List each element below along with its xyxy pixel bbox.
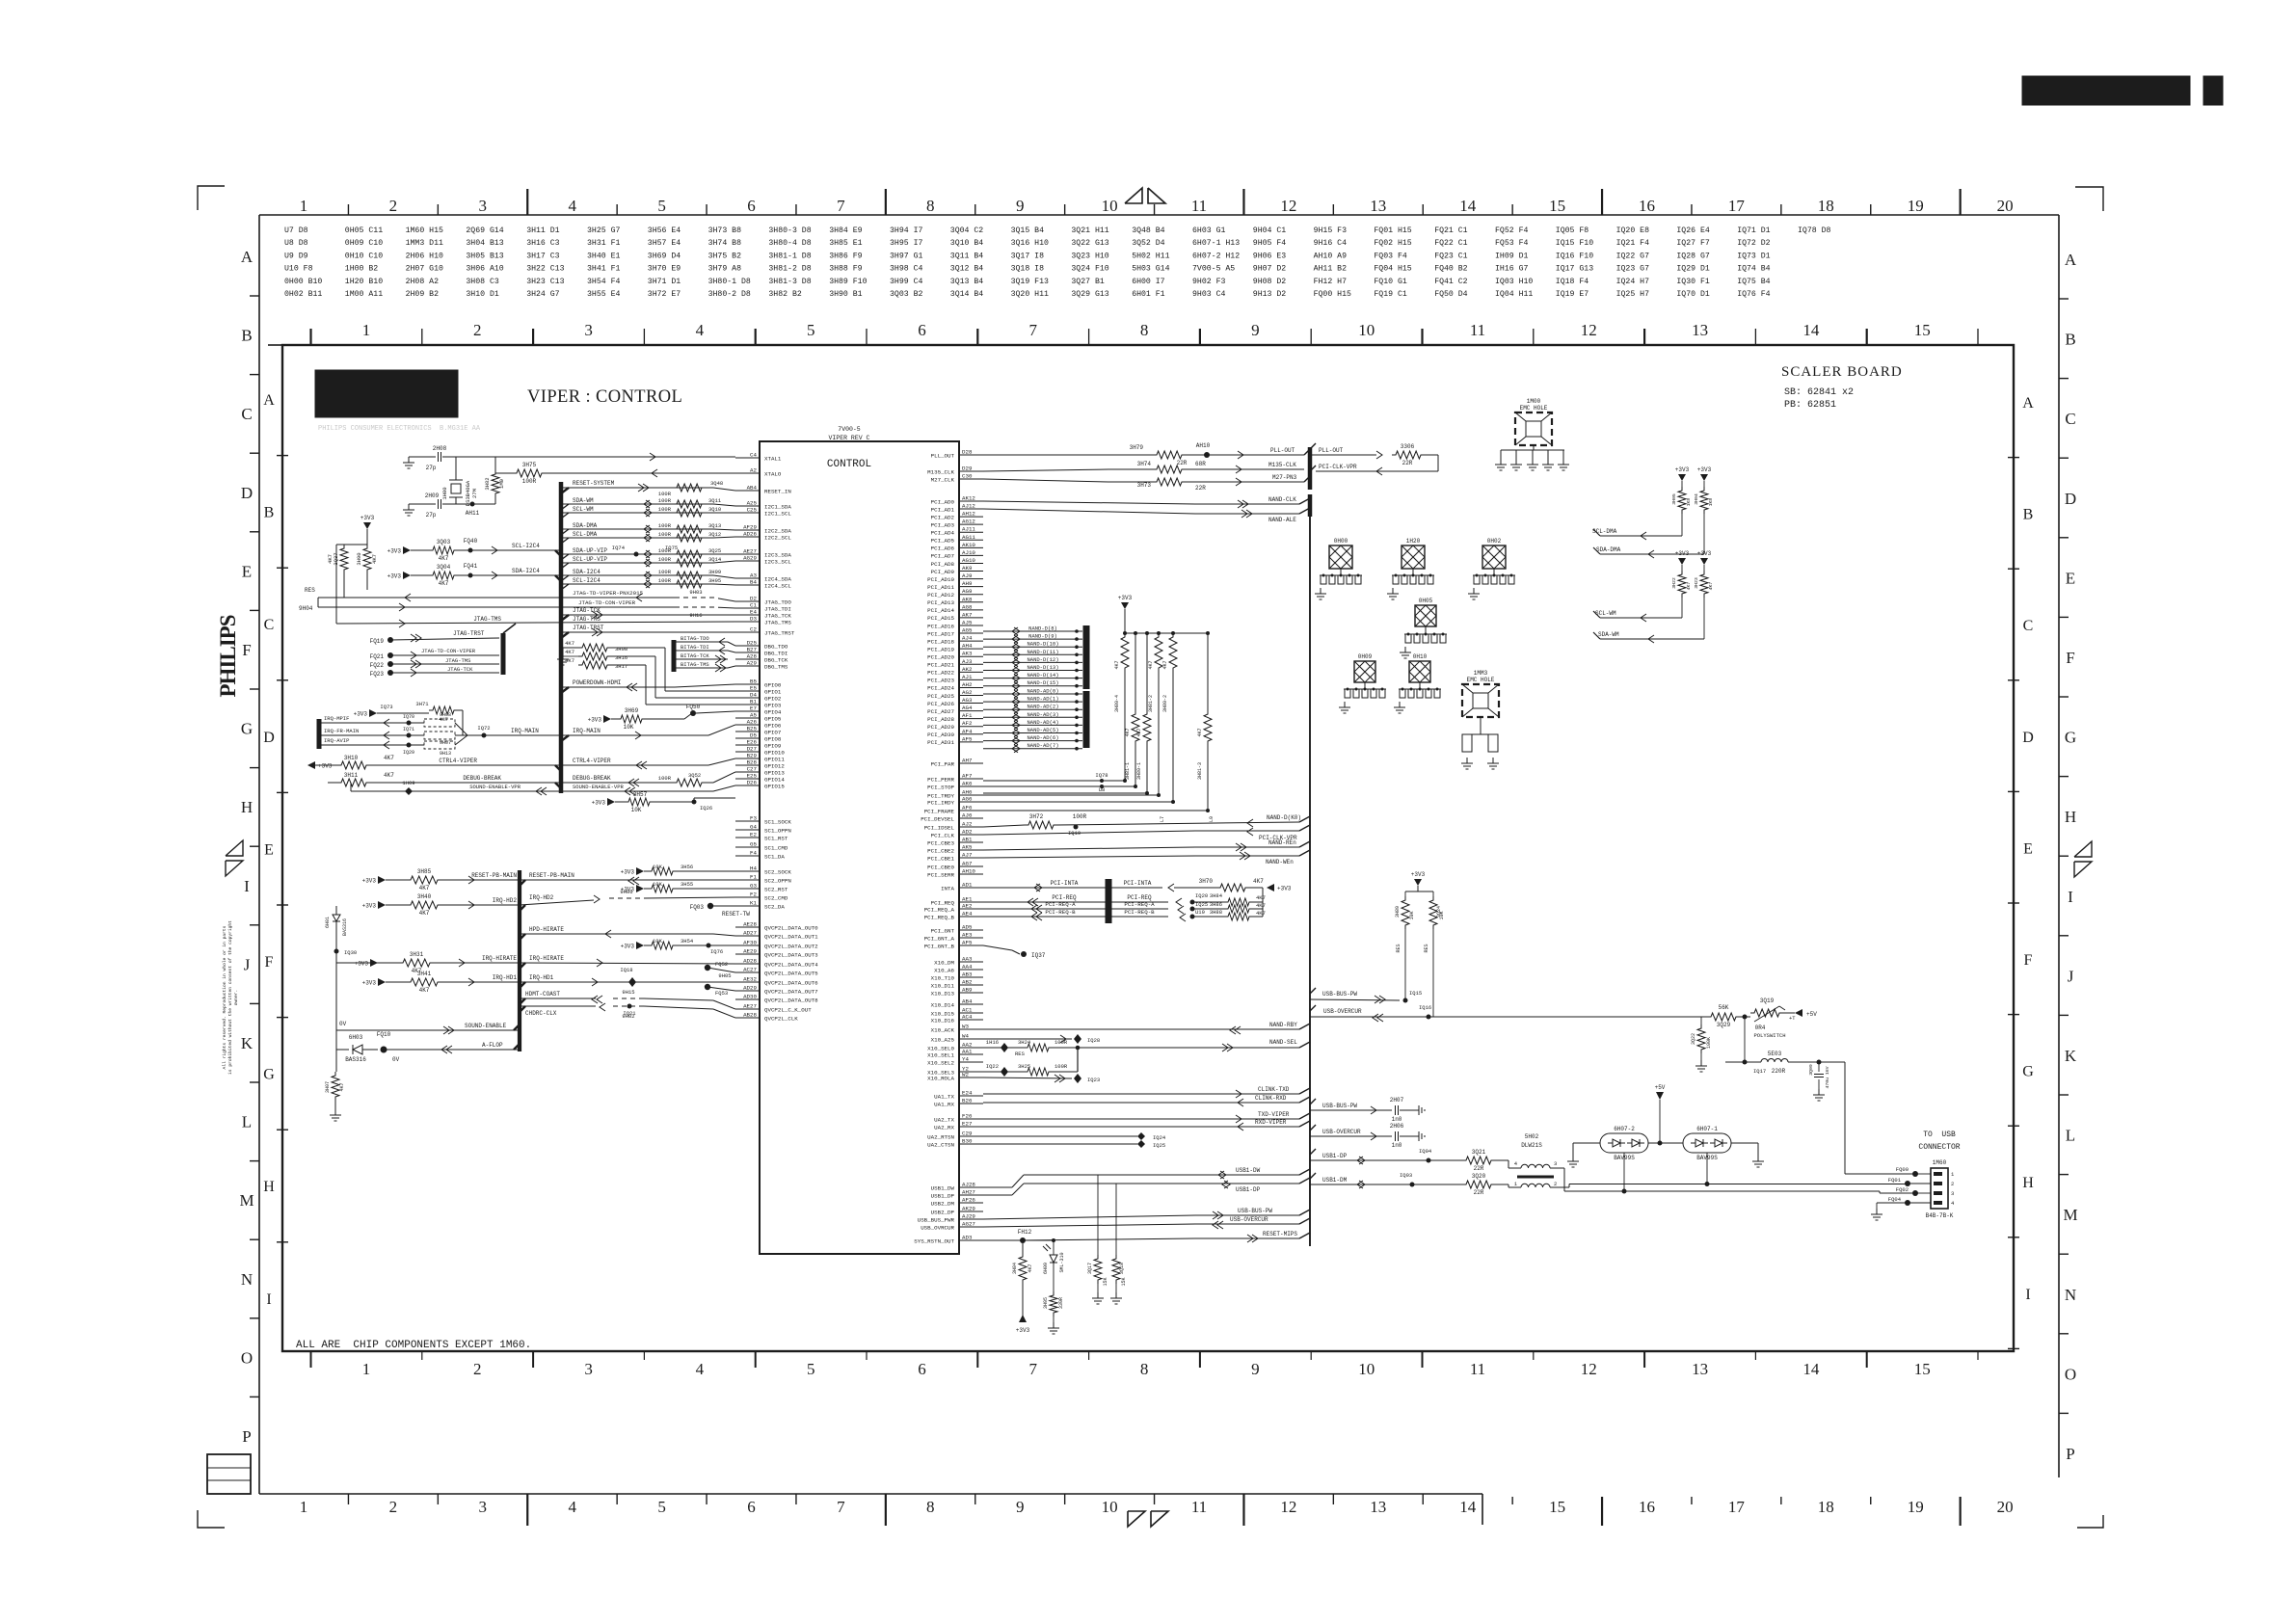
connector pin dot FQ00 [1912, 1171, 1918, 1177]
svg-text:5H02: 5H02 [1525, 1133, 1539, 1140]
svg-text:100R: 100R [1055, 1063, 1068, 1070]
svg-text:SDA-DMA: SDA-DMA [573, 522, 598, 529]
svg-text:UA1_TX: UA1_TX [934, 1093, 954, 1100]
svg-text:3Q12: 3Q12 [708, 531, 721, 538]
svg-text:W2: W2 [962, 1072, 969, 1078]
svg-text:IRQ-HD1: IRQ-HD1 [493, 974, 518, 981]
svg-text:6H07-2 H12: 6H07-2 H12 [1192, 252, 1240, 260]
svg-text:9H05 F4: 9H05 F4 [1253, 239, 1286, 248]
svg-text:22R: 22R [1474, 1189, 1484, 1196]
svg-text:PCI-REQ-B: PCI-REQ-B [1045, 909, 1076, 916]
svg-text:IQ25 H7: IQ25 H7 [1616, 290, 1649, 299]
svg-text:E: E [242, 562, 252, 580]
svg-text:3H31: 3H31 [410, 951, 424, 958]
svg-text:All rights reserved. Reproduct: All rights reserved. Reproduction in who… [222, 925, 227, 1069]
svg-text:N: N [241, 1270, 253, 1289]
svg-text:6H07-1 H13: 6H07-1 H13 [1192, 239, 1240, 248]
svg-text:M27_CLK: M27_CLK [931, 476, 955, 483]
ground under 3H07 [334, 1109, 336, 1115]
svg-text:B30: B30 [962, 1138, 973, 1145]
ground comb under 1M00 [1533, 445, 1535, 450]
svg-text:FQ52 F4: FQ52 F4 [1495, 226, 1528, 235]
resistor 3H07 4K7 to ground [332, 1072, 339, 1101]
svg-text:100R: 100R [658, 556, 672, 563]
test point FQ03 RESET-TW [707, 903, 713, 909]
svg-text:2H07: 2H07 [1390, 1097, 1404, 1104]
wire TXD-VIPER [983, 1118, 1299, 1120]
svg-text:AG4: AG4 [962, 705, 973, 711]
svg-text:3H55 E4: 3H55 E4 [587, 290, 620, 299]
svg-text:4K7: 4K7 [384, 755, 394, 761]
redaction box title block [315, 370, 458, 417]
svg-text:14: 14 [1802, 321, 1820, 339]
svg-text:GPIO11: GPIO11 [764, 756, 785, 762]
svg-text:AJ2: AJ2 [962, 821, 973, 828]
svg-text:3H80-4 D8: 3H80-4 D8 [768, 239, 811, 248]
svg-text:GPIO6: GPIO6 [764, 722, 782, 729]
svg-text:NAND-AD(2): NAND-AD(2) [1027, 704, 1058, 710]
svg-text:3H54 F4: 3H54 F4 [587, 278, 620, 286]
svg-text:HPD-HIRATE: HPD-HIRATE [529, 926, 564, 933]
diode array 6H07-2 BAV99S [1600, 1133, 1648, 1153]
svg-text:USB-BUS-PW: USB-BUS-PW [1322, 1103, 1357, 1109]
svg-text:PCI_AD3: PCI_AD3 [931, 521, 955, 528]
dashed link 9H06 [609, 897, 644, 899]
svg-text:PCI_AD12: PCI_AD12 [927, 592, 954, 599]
svg-text:D26: D26 [747, 780, 758, 786]
svg-text:3H70 E9: 3H70 E9 [648, 265, 681, 274]
wire PCI-REQ-A [983, 908, 1106, 910]
svg-text:7: 7 [837, 197, 845, 215]
crop mark top-right [2075, 187, 2103, 211]
inductor 5E03 220R [1744, 1017, 1746, 1062]
wire BITAG-TMS [674, 667, 728, 669]
resistor 3H79 22R PLL_OUT [983, 454, 1153, 456]
svg-text:1: 1 [300, 197, 308, 215]
svg-text:U10 F8: U10 F8 [284, 265, 313, 274]
svg-text:IQ30 F1: IQ30 F1 [1676, 278, 1709, 286]
IRQ input mini bus [317, 719, 322, 749]
svg-text:NAND-D(9): NAND-D(9) [1028, 633, 1057, 640]
svg-text:H: H [263, 1179, 275, 1195]
svg-text:IQ25: IQ25 [1195, 901, 1208, 908]
ground for pullups [563, 647, 578, 649]
svg-text:UA2_CTSN: UA2_CTSN [927, 1141, 954, 1148]
svg-text:AD5: AD5 [962, 924, 973, 931]
svg-text:QVCP2L_DATA_OUT3: QVCP2L_DATA_OUT3 [764, 951, 818, 958]
svg-text:IRQ-HD1: IRQ-HD1 [529, 974, 554, 981]
svg-text:100R: 100R [658, 522, 672, 529]
svg-text:G3: G3 [750, 883, 757, 890]
svg-text:FQ23 C1: FQ23 C1 [1434, 252, 1467, 260]
wire IRQ-AVIP [319, 744, 424, 746]
wire IRQ-FR-MAIN [319, 734, 424, 736]
wire NAND-AD(6) [983, 740, 1082, 742]
svg-text:+3V3: +3V3 [387, 573, 402, 580]
svg-text:AB9: AB9 [962, 987, 973, 994]
svg-text:JTAG_TRST: JTAG_TRST [764, 629, 795, 636]
svg-text:AJ5: AJ5 [962, 619, 973, 625]
svg-text:NAND-D(11): NAND-D(11) [1027, 649, 1058, 655]
svg-text:3H10 D1: 3H10 D1 [466, 290, 498, 299]
svg-text:DBG_TMS: DBG_TMS [764, 663, 788, 670]
svg-text:PCI-REQ: PCI-REQ [1052, 894, 1077, 901]
resistor 3H70 4K7 [1174, 887, 1216, 889]
svg-text:W4: W4 [962, 1033, 969, 1040]
svg-text:4K7: 4K7 [339, 1082, 345, 1091]
svg-text:NAND-D(13): NAND-D(13) [1027, 664, 1058, 671]
svg-text:RESET-PB-MAIN: RESET-PB-MAIN [529, 872, 574, 879]
node IQ21 [627, 1004, 632, 1009]
svg-text:I2C3_SDA: I2C3_SDA [764, 551, 791, 558]
svg-text:AD28: AD28 [743, 958, 757, 965]
svg-text:FQ03: FQ03 [690, 904, 705, 911]
svg-text:M27-PN3: M27-PN3 [1272, 474, 1297, 481]
wire NAND-AD(7) [983, 748, 1082, 750]
wire IRQ-MAIN to IC [561, 734, 708, 736]
svg-text:B5: B5 [750, 678, 757, 685]
svg-text:SC2_CMD: SC2_CMD [764, 894, 788, 901]
power +3V3 with resistor 3H69 10K to FQ50 [603, 715, 611, 723]
svg-text:IRQ-HD2: IRQ-HD2 [493, 897, 518, 904]
svg-text:D: D [263, 730, 275, 746]
svg-text:U8 D8: U8 D8 [284, 239, 308, 248]
svg-text:0H09 C10: 0H09 C10 [345, 239, 383, 248]
svg-text:SC2_OPPN: SC2_OPPN [764, 877, 791, 884]
svg-text:QVCP2L_DATA_OUT8: QVCP2L_DATA_OUT8 [764, 997, 818, 1003]
test point FQ53 [705, 984, 710, 990]
svg-text:1H20: 1H20 [1406, 538, 1421, 545]
svg-text:3H10: 3H10 [344, 755, 359, 761]
svg-text:D: D [241, 484, 253, 502]
power +3V3 resistor 3H57 10K node IQ26 [607, 798, 615, 806]
svg-text:IQ22 G7: IQ22 G7 [1616, 252, 1649, 260]
svg-text:3H82: 3H82 [484, 477, 491, 490]
svg-text:PCI_AD15: PCI_AD15 [927, 615, 954, 622]
svg-text:3H72 E7: 3H72 E7 [648, 290, 681, 299]
svg-text:3H06 A10: 3H06 A10 [466, 265, 503, 274]
resistor 3H23 4K7 [1703, 565, 1705, 571]
svg-text:17: 17 [1728, 1498, 1746, 1516]
svg-text:BITAG-TDO: BITAG-TDO [681, 635, 709, 642]
svg-text:B4B-7B-K: B4B-7B-K [1926, 1212, 1954, 1219]
svg-text:A: A [2065, 251, 2077, 269]
svg-text:FH12 H7: FH12 H7 [1314, 278, 1347, 286]
svg-text:X10_DM: X10_DM [934, 959, 954, 966]
svg-text:JTAG-TMS: JTAG-TMS [473, 616, 501, 623]
svg-text:A: A [241, 248, 254, 266]
crop mark bottom-right [2077, 1515, 2103, 1528]
svg-text:QVCP2L_DATA_OUT2: QVCP2L_DATA_OUT2 [764, 943, 818, 949]
svg-text:PCI_AD25: PCI_AD25 [927, 693, 954, 700]
svg-text:SC1_OPPN: SC1_OPPN [764, 827, 791, 834]
svg-text:IQ27 F7: IQ27 F7 [1676, 239, 1709, 248]
svg-text:AG7: AG7 [962, 861, 973, 867]
svg-text:3Q19 F13: 3Q19 F13 [1011, 278, 1049, 286]
svg-text:AD29: AD29 [743, 985, 757, 992]
svg-text:3Q11 B4: 3Q11 B4 [950, 252, 983, 260]
svg-text:U9 D9: U9 D9 [284, 252, 308, 260]
svg-text:AH27: AH27 [962, 1189, 975, 1196]
svg-text:USB1_DW: USB1_DW [931, 1184, 955, 1191]
svg-text:NAND-SEL: NAND-SEL [1269, 1039, 1297, 1046]
svg-text:CTRL4-VIPER: CTRL4-VIPER [439, 758, 477, 764]
svg-text:FQ40: FQ40 [464, 538, 478, 545]
EMC hole 1MM3 [1462, 684, 1499, 717]
svg-text:9H15: 9H15 [622, 989, 634, 996]
svg-text:27p: 27p [426, 512, 437, 519]
resistor 3H84 4K7 below FH12 [1022, 1240, 1024, 1253]
svg-text:USB-OVERCUR: USB-OVERCUR [1323, 1008, 1362, 1015]
svg-text:NAND-RBY: NAND-RBY [1269, 1022, 1297, 1028]
svg-text:10K: 10K [1409, 911, 1415, 919]
svg-text:2H09: 2H09 [425, 492, 440, 499]
svg-text:FQ41 C2: FQ41 C2 [1434, 278, 1467, 286]
svg-text:JTAG-TCK: JTAG-TCK [447, 666, 473, 673]
svg-text:AB28: AB28 [743, 1012, 757, 1019]
svg-text:9H04: 9H04 [299, 605, 313, 612]
svg-text:NAND-D(K0): NAND-D(K0) [1267, 814, 1301, 821]
svg-text:TXD-VIPER: TXD-VIPER [1258, 1111, 1290, 1118]
svg-text:C: C [2023, 618, 2034, 634]
svg-text:G: G [263, 1067, 275, 1083]
svg-text:4K7: 4K7 [1136, 728, 1142, 736]
EMC hole 1M00 [1515, 412, 1552, 445]
svg-text:USB1-DM: USB1-DM [1322, 1177, 1348, 1184]
test point FQ10 [381, 1047, 387, 1053]
svg-text:4: 4 [696, 321, 705, 339]
svg-text:3H04 B13: 3H04 B13 [466, 239, 503, 248]
svg-text:3H17: 3H17 [615, 663, 627, 670]
power +3V3 NAND pullup rail [1121, 602, 1129, 609]
svg-text:3: 3 [479, 197, 488, 215]
svg-text:C1: C1 [750, 602, 757, 609]
svg-text:G: G [2065, 729, 2076, 747]
svg-text:3Q21 H11: 3Q21 H11 [1071, 226, 1108, 235]
svg-text:2: 2 [1951, 1181, 1954, 1187]
svg-text:9H08 D2: 9H08 D2 [1253, 278, 1286, 286]
svg-text:+3V3: +3V3 [362, 980, 377, 987]
diode array 6H07-1 BAV99S [1683, 1133, 1731, 1153]
LED SML-310 with resistor 3H95 330R [1023, 1239, 1054, 1241]
svg-text:IQ17 G13: IQ17 G13 [1556, 265, 1593, 274]
svg-text:X10_D16: X10_D16 [931, 1017, 955, 1024]
resistor 3Q20 22R [1462, 1181, 1495, 1188]
svg-text:1M00 A11: 1M00 A11 [345, 290, 383, 299]
svg-text:RESET_IN: RESET_IN [764, 488, 791, 494]
EMC fence 0H02 [1482, 545, 1506, 569]
svg-text:IQ29 D1: IQ29 D1 [1676, 265, 1709, 274]
svg-text:PCI_AD23: PCI_AD23 [927, 678, 954, 684]
svg-text:3H54: 3H54 [681, 938, 694, 945]
svg-text:B: B [2023, 507, 2034, 523]
svg-text:2H07 G10: 2H07 G10 [406, 265, 443, 274]
svg-text:3Q13: 3Q13 [708, 522, 721, 529]
svg-text:AG8: AG8 [962, 603, 973, 610]
wire PCI-CLK-VPR return [1425, 454, 1438, 456]
resistor 3H90 4K7 vertical [363, 545, 371, 573]
svg-text:1H20 B10: 1H20 B10 [345, 278, 383, 286]
svg-text:SC1_CMD: SC1_CMD [764, 844, 788, 851]
svg-text:NAND-AD(1): NAND-AD(1) [1027, 696, 1058, 703]
capacitor 2H06 1n0 USB-OVERCUR [1310, 1135, 1392, 1137]
svg-text:AG27: AG27 [962, 1221, 975, 1228]
power +5V over diode arrays [1656, 1092, 1664, 1100]
svg-text:IQ76 F4: IQ76 F4 [1737, 290, 1770, 299]
svg-text:F4: F4 [750, 850, 757, 857]
resistor 3Q03 4K7 [411, 549, 429, 551]
svg-text:C: C [264, 617, 275, 633]
svg-text:3H23 C13: 3H23 C13 [526, 278, 564, 286]
polyswitch 3Q19 0R4 [1740, 1016, 1750, 1018]
svg-text:E24: E24 [962, 1090, 973, 1097]
pullup resistor 3H16 4K7 [578, 652, 611, 660]
wire USB1-DP to transformer [1310, 1159, 1462, 1161]
svg-text:3H81-2: 3H81-2 [1148, 695, 1154, 712]
resistor 3H80-2 4K7 vertical [1169, 633, 1177, 672]
node FQ41 [458, 574, 482, 576]
power +3V3 with resistor 3H71 4K7 [369, 709, 377, 717]
long wire USB D+ to connector [1589, 1184, 1908, 1185]
capacitor 2H07 1n0 USB-BUS-PW [1310, 1109, 1392, 1111]
svg-text:SCL-DMA: SCL-DMA [573, 531, 598, 538]
svg-text:0R4: 0R4 [1755, 1024, 1766, 1031]
svg-text:PCI_AD27: PCI_AD27 [927, 708, 954, 715]
svg-text:E27: E27 [962, 1121, 973, 1128]
svg-text:4K7: 4K7 [1686, 582, 1692, 591]
svg-text:JTAG-TRST: JTAG-TRST [453, 630, 485, 637]
svg-text:is prohibited without the writ: is prohibited without the written consen… [227, 920, 233, 1075]
svg-text:AE27: AE27 [743, 1003, 757, 1010]
svg-text:3Q04 C2: 3Q04 C2 [950, 226, 983, 235]
svg-text:PCI-CLK-VPR: PCI-CLK-VPR [1319, 464, 1357, 470]
svg-text:4K7: 4K7 [565, 657, 574, 664]
diode 6H01 BAS316 [335, 906, 337, 915]
vertical taps from diode arrays to usb pair [1623, 1153, 1625, 1191]
svg-text:A28: A28 [747, 653, 758, 660]
EMC fence 1H20 [1402, 545, 1425, 569]
svg-text:PCI_AD10: PCI_AD10 [927, 576, 954, 583]
wire NAND-D(K0) to bus [1247, 819, 1253, 827]
svg-text:4K7: 4K7 [565, 640, 574, 647]
svg-text:2: 2 [389, 1498, 398, 1516]
svg-text:L: L [242, 1113, 252, 1131]
wire SDA-DMA with resistor 3Q13 [561, 528, 713, 530]
svg-text:1M00: 1M00 [1527, 398, 1541, 405]
diode 6H03 BAS316 A-FLOP [336, 1049, 349, 1051]
svg-text:3Q17 I8: 3Q17 I8 [1011, 252, 1044, 260]
svg-text:IRQ-HD2: IRQ-HD2 [529, 894, 554, 901]
redaction box top-right small [2203, 76, 2223, 105]
svg-text:CTRL4-VIPER: CTRL4-VIPER [573, 758, 611, 764]
svg-text:6: 6 [918, 1360, 926, 1378]
svg-text:11: 11 [1470, 321, 1485, 339]
wire RXD-VIPER [983, 1126, 1299, 1128]
svg-text:330R: 330R [1058, 1297, 1064, 1309]
svg-text:3H89 F10: 3H89 F10 [829, 278, 867, 286]
svg-text:AJ3: AJ3 [962, 658, 973, 665]
svg-text:3H74: 3H74 [1137, 461, 1152, 467]
svg-text:IQ22: IQ22 [986, 1063, 999, 1070]
wire bus power to connector pin1 [1844, 1062, 1846, 1174]
svg-text:XTAL1: XTAL1 [764, 455, 782, 462]
svg-text:BAS316: BAS316 [345, 1056, 366, 1063]
power +3V3 resistor 3H56 10K [636, 867, 644, 875]
svg-text:FQ04: FQ04 [1888, 1196, 1902, 1203]
svg-text:VIPER : CONTROL: VIPER : CONTROL [527, 387, 682, 407]
wire JTAG-TCK [561, 614, 735, 616]
svg-text:3Q52 D4: 3Q52 D4 [1132, 239, 1164, 248]
svg-text:NAND-D(15): NAND-D(15) [1027, 679, 1058, 686]
svg-text:3H22 C13: 3H22 C13 [526, 265, 564, 274]
svg-text:4K7: 4K7 [1125, 728, 1131, 736]
wire USB-BUS-PW lower [983, 1215, 1195, 1219]
svg-text:PCI_IRDY: PCI_IRDY [927, 799, 954, 806]
svg-text:USB_BUS_PWR: USB_BUS_PWR [918, 1216, 955, 1223]
svg-text:G5: G5 [750, 841, 757, 848]
svg-text:B: B [241, 327, 252, 345]
wire NAND-WEn [983, 856, 1195, 858]
svg-text:3H81-1 D8: 3H81-1 D8 [768, 252, 811, 260]
svg-text:FQ00: FQ00 [1896, 1166, 1909, 1173]
svg-text:VIPER REV C: VIPER REV C [829, 435, 870, 441]
wire BITAG-TDO [674, 641, 728, 643]
svg-text:1H00 B2: 1H00 B2 [345, 265, 378, 274]
svg-text:AE2: AE2 [962, 903, 973, 910]
svg-text:FH12: FH12 [1018, 1229, 1032, 1236]
capacitor 2H08 27p [409, 456, 436, 458]
wire NAND-D(10) [983, 646, 1082, 648]
NAND data gather bar upper [1083, 625, 1090, 689]
svg-text:1H09: 1H09 [402, 780, 414, 786]
svg-text:11: 11 [1191, 1498, 1207, 1516]
svg-text:PCI_AD13: PCI_AD13 [927, 599, 954, 606]
svg-text:13: 13 [1692, 321, 1708, 339]
wire PCI-INTA [983, 887, 1106, 889]
svg-text:BITAG-TDI: BITAG-TDI [681, 644, 709, 651]
wire RESET-MIPS with node FH12 [983, 1239, 1023, 1241]
svg-text:JTAG_TDO: JTAG_TDO [764, 599, 791, 605]
power +3V3 RESET-PB-MAIN [378, 876, 386, 884]
svg-text:PCI_AD30: PCI_AD30 [927, 732, 954, 738]
svg-text:G: G [2022, 1064, 2034, 1080]
svg-text:AG5: AG5 [962, 627, 973, 634]
svg-text:USB1-DW: USB1-DW [1236, 1167, 1261, 1174]
svg-text:Y4: Y4 [962, 1056, 969, 1063]
svg-text:3H11 D1: 3H11 D1 [526, 226, 559, 235]
svg-text:IQ72: IQ72 [477, 725, 490, 732]
svg-text:A3: A3 [750, 572, 757, 579]
svg-text:13: 13 [1692, 1360, 1708, 1378]
svg-text:PCI_GNT: PCI_GNT [931, 927, 955, 934]
svg-text:10: 10 [1358, 1360, 1375, 1378]
svg-text:AF2: AF2 [962, 720, 973, 727]
svg-text:4K7: 4K7 [1114, 660, 1120, 669]
svg-text:IQ37: IQ37 [1031, 952, 1046, 959]
svg-text:PCI-REQ-A: PCI-REQ-A [1045, 901, 1076, 908]
svg-text:3Q48: 3Q48 [710, 480, 723, 487]
svg-text:1: 1 [362, 321, 371, 339]
svg-text:M135-CLK: M135-CLK [1268, 462, 1296, 468]
ground under LED [1053, 1322, 1055, 1328]
svg-text:C30: C30 [962, 473, 973, 480]
svg-text:AE32: AE32 [743, 976, 757, 983]
svg-text:PCI_TRDY: PCI_TRDY [927, 792, 954, 799]
svg-text:AJ28: AJ28 [962, 1182, 975, 1188]
svg-text:IQ24 H7: IQ24 H7 [1616, 278, 1649, 286]
wire SCL-I2C4 with resistor 3H95 [561, 583, 713, 585]
svg-text:14: 14 [1459, 197, 1477, 215]
